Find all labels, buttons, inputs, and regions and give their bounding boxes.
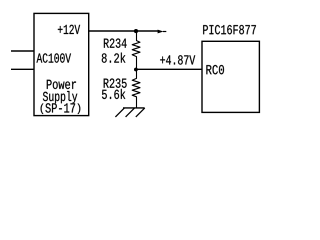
junction node +12V/R234 — [134, 29, 138, 33]
power supply label AC100V — [37, 53, 72, 62]
power supply label Power — [47, 80, 76, 89]
power supply label Supply — [43, 91, 77, 103]
resistor R235 — [132, 69, 140, 108]
power supply box U-PS — [34, 13, 89, 115]
resistor R235 value 5.6k — [102, 89, 125, 99]
junction node R234/R235 divider tap — [134, 68, 138, 72]
resistor R235 label — [104, 78, 127, 87]
resistor R234 label — [104, 38, 127, 47]
wire divider tap to RC0 — [137, 68, 203, 70]
power supply label (SP-17) — [41, 103, 81, 114]
ground hatch left — [115, 108, 124, 117]
ground chassis bar — [123, 107, 145, 109]
ground hatch middle — [126, 108, 135, 117]
wire +12V rail — [89, 30, 160, 32]
node +12V label — [58, 25, 80, 34]
wire AC input stub 2 — [11, 68, 34, 70]
ground hatch right — [136, 108, 145, 117]
IC label PIC16F877 — [203, 25, 256, 34]
node +4.87V label — [160, 55, 195, 64]
resistor R234 value 8.2k — [102, 53, 126, 63]
IC U1 PIC16F877 box — [202, 41, 259, 112]
resistor R234 — [132, 31, 140, 69]
pin label RC0 — [206, 65, 224, 74]
arrow +12V continuation — [158, 30, 164, 34]
wire AC input stub 1 — [11, 50, 34, 52]
